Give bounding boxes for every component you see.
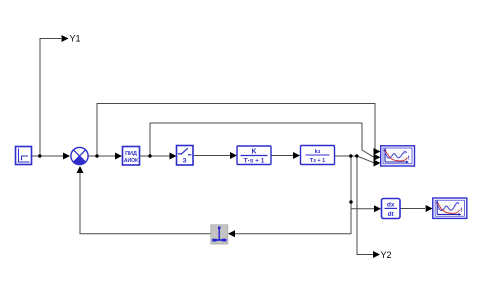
svg-text:dt: dt — [388, 211, 395, 218]
svg-text:T·s + 1: T·s + 1 — [244, 158, 265, 165]
svg-text:Y1: Y1 — [70, 34, 81, 44]
svg-text:kз: kз — [315, 149, 321, 155]
svg-text:З: З — [182, 158, 186, 165]
svg-text:dx: dx — [387, 202, 395, 209]
svg-text:Tз + 1: Tз + 1 — [310, 158, 325, 164]
svg-text:АИОК: АИОК — [124, 158, 139, 164]
svg-text:ПИД: ПИД — [125, 151, 137, 157]
svg-text:K: K — [251, 149, 256, 156]
svg-text:Y2: Y2 — [381, 250, 392, 260]
